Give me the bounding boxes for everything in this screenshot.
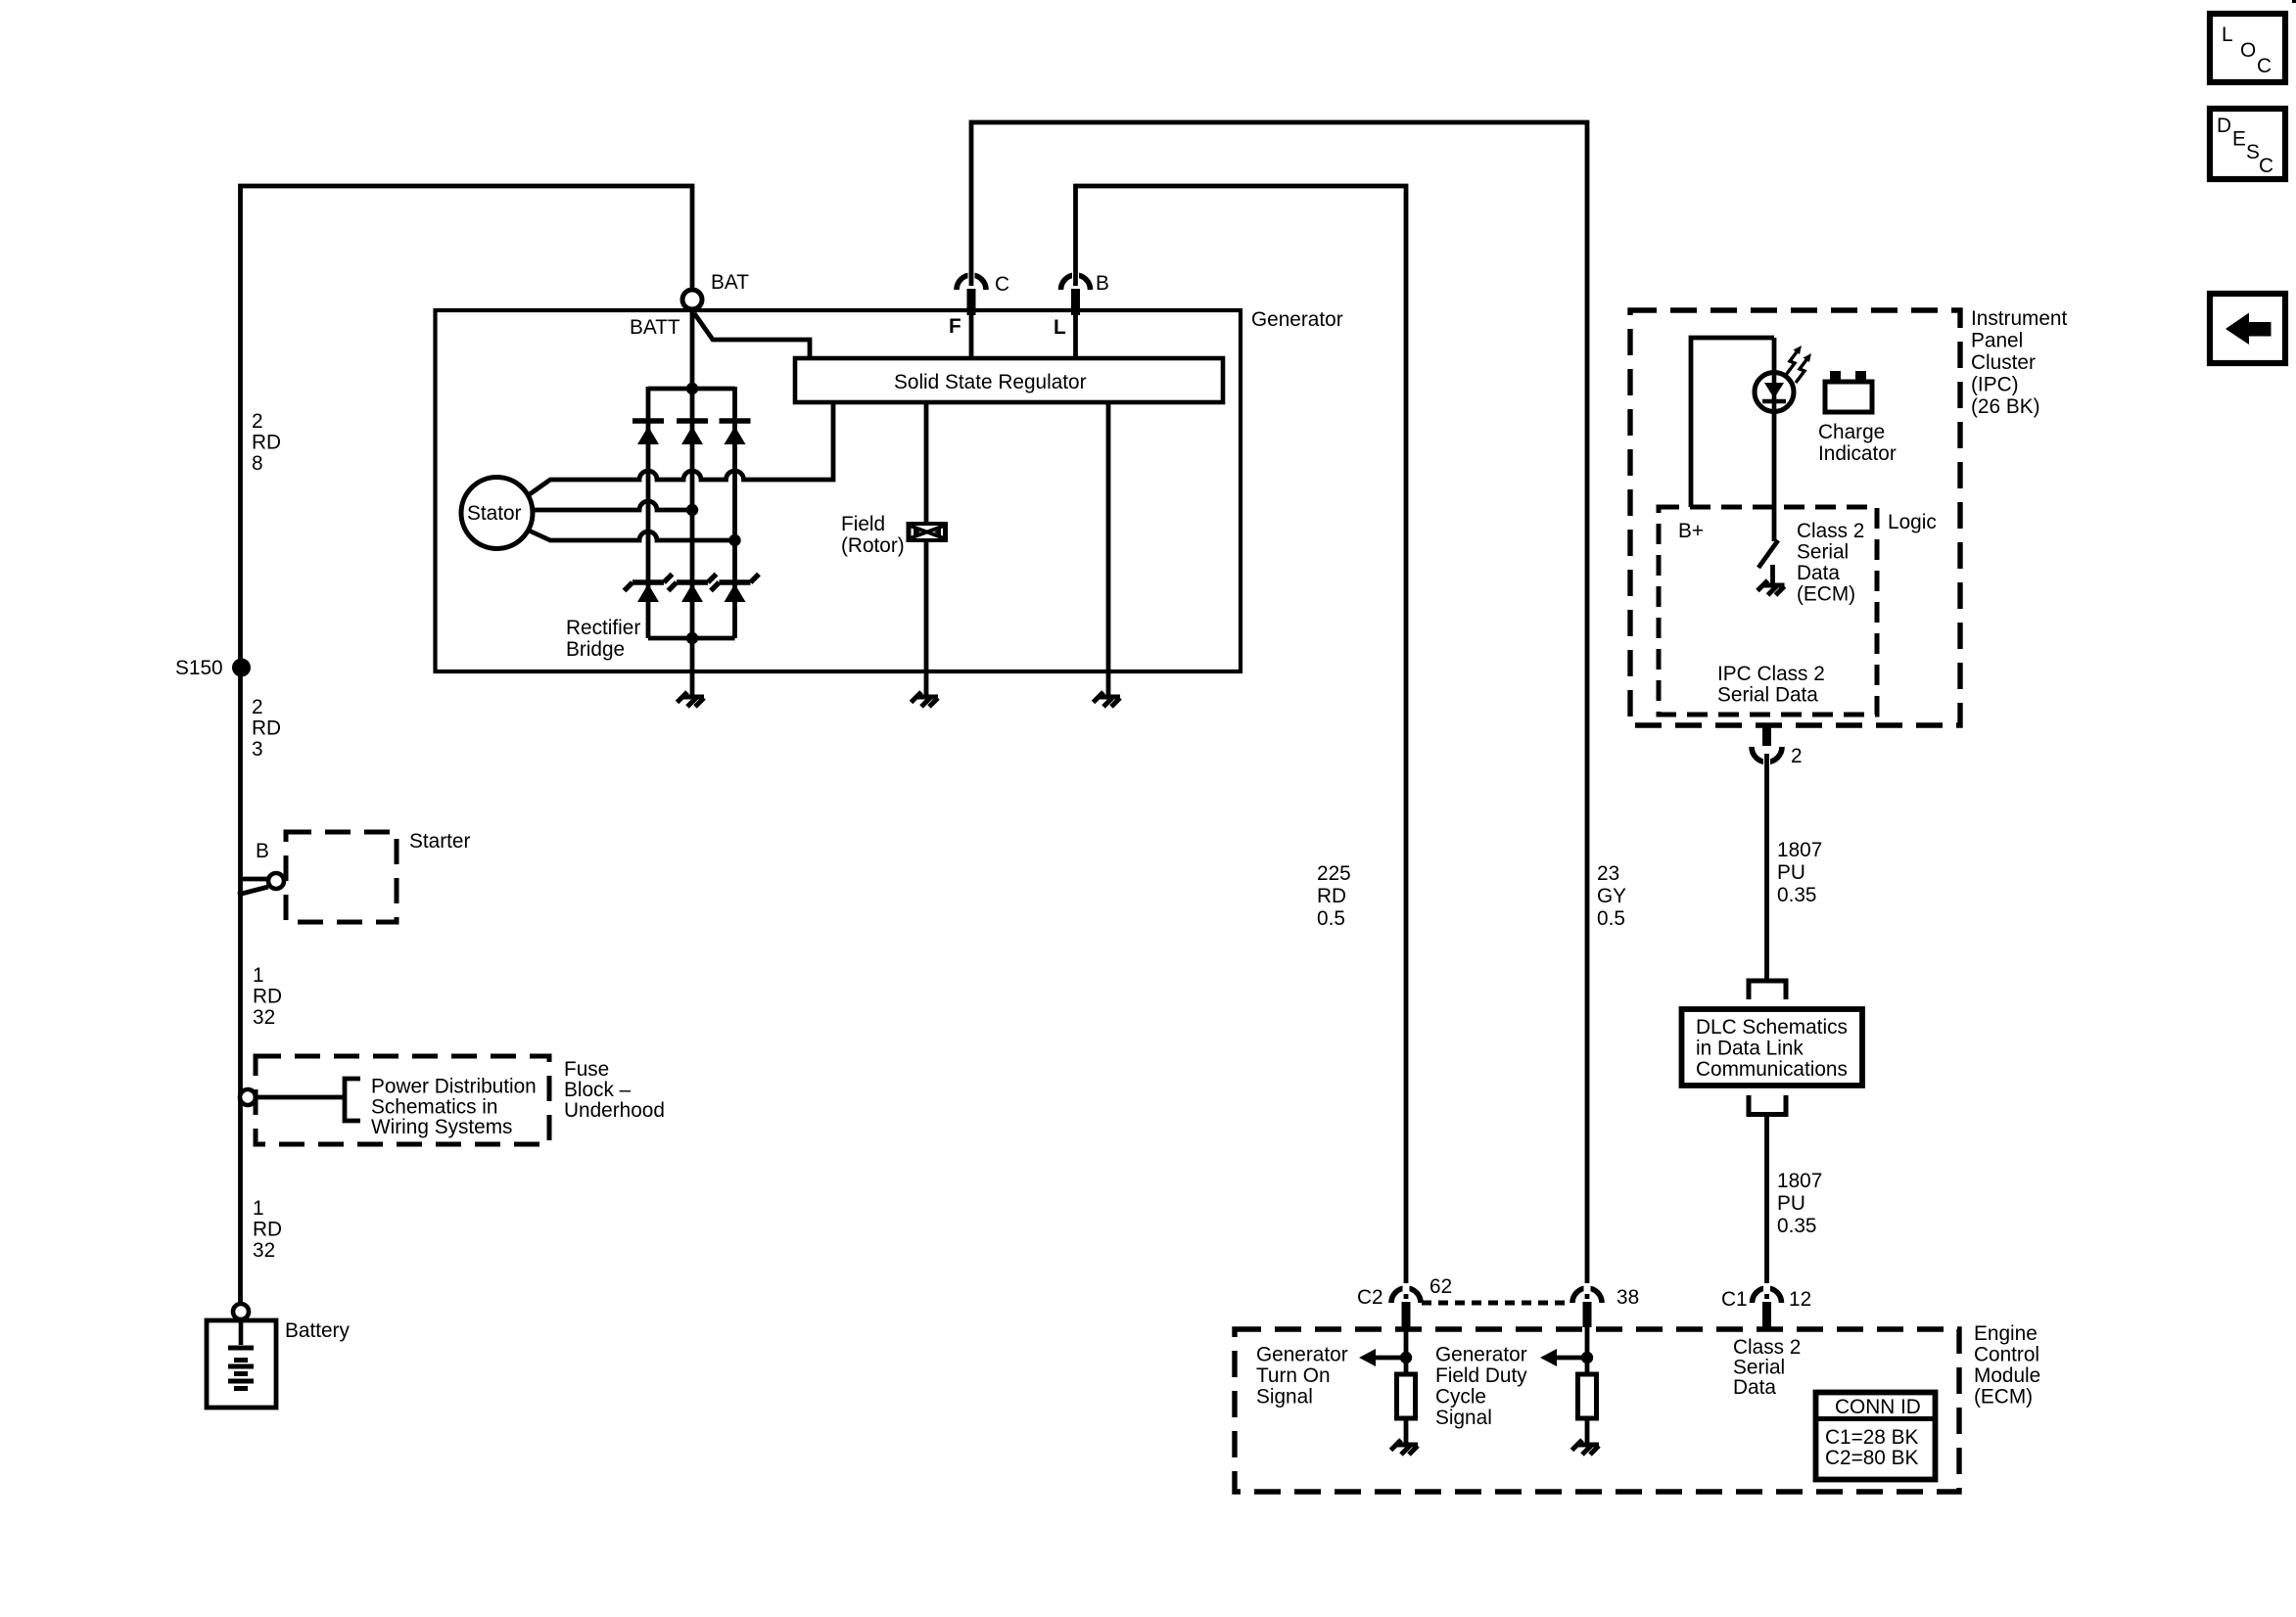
wire resistor to ground 2 xyxy=(1585,1418,1590,1445)
wire BATT diagonal to regulator xyxy=(694,313,810,358)
svg-text:0.5: 0.5 xyxy=(1597,907,1625,930)
svg-text:0.5: 0.5 xyxy=(1317,907,1345,930)
svg-text:in Data Link: in Data Link xyxy=(1696,1038,1804,1060)
wire B+ branch xyxy=(1691,338,1774,507)
svg-text:DLC Schematics: DLC Schematics xyxy=(1696,1016,1848,1039)
ground IPC logic xyxy=(1757,580,1785,595)
wire stator phase 1 to regulator xyxy=(527,402,833,496)
svg-text:1: 1 xyxy=(253,964,264,987)
diode D4 lower left zener xyxy=(625,575,673,591)
pin L xyxy=(1071,289,1080,315)
fuse block terminal circle xyxy=(240,1089,256,1105)
svg-text:L: L xyxy=(1054,316,1066,339)
battery box xyxy=(207,1320,276,1408)
wire L pin to regulator xyxy=(1073,315,1078,358)
svg-text:BAT: BAT xyxy=(711,271,749,294)
wire C to ECM 38 xyxy=(971,122,1587,1299)
svg-text:Generator: Generator xyxy=(1251,308,1343,331)
svg-text:C: C xyxy=(995,273,1009,296)
wire generator turn on signal xyxy=(1404,1327,1409,1374)
diode D3 upper right xyxy=(720,418,751,423)
battery cell symbol xyxy=(239,1322,244,1345)
ECM dashed box Engine Control Module xyxy=(1235,1329,1959,1492)
DLC top bracket xyxy=(1749,981,1786,999)
DESC box xyxy=(2210,109,2285,179)
svg-text:IPC Class 2: IPC Class 2 xyxy=(1717,663,1825,685)
svg-text:12: 12 xyxy=(1789,1288,1811,1311)
svg-text:Field: Field xyxy=(841,513,885,535)
fuse block dashed box xyxy=(256,1056,549,1144)
svg-text:(ECM): (ECM) xyxy=(1797,583,1855,606)
svg-text:Generator: Generator xyxy=(1256,1344,1348,1366)
wire battery feed: left vertical and top horizontal to BAT xyxy=(241,186,693,1304)
wire rectifier right column xyxy=(732,387,737,638)
pin 62 xyxy=(1402,1302,1411,1327)
svg-text:CONN ID: CONN ID xyxy=(1835,1396,1921,1418)
starter switch arm xyxy=(238,887,268,895)
arrow box xyxy=(2210,294,2285,363)
svg-text:Field Duty: Field Duty xyxy=(1435,1364,1527,1387)
arrow turn on signal xyxy=(1374,1356,1406,1361)
wire B to ECM C2 62 xyxy=(1076,186,1407,1299)
wire switch to ground xyxy=(1770,565,1775,585)
connector B arc at generator xyxy=(1061,275,1091,290)
ground field xyxy=(912,692,939,707)
svg-text:Rectifier: Rectifier xyxy=(566,617,640,639)
regulator box Solid State Regulator xyxy=(795,358,1223,402)
svg-text:Data: Data xyxy=(1733,1376,1776,1399)
svg-text:0.35: 0.35 xyxy=(1777,1215,1816,1237)
DLC bottom bracket xyxy=(1749,1095,1786,1115)
svg-text:1807: 1807 xyxy=(1777,839,1822,861)
connector 38 arc xyxy=(1572,1288,1602,1303)
ground ECM 1 xyxy=(1391,1440,1419,1455)
ground ECM 2 xyxy=(1572,1440,1600,1455)
wire BAT vertical into rectifier xyxy=(690,309,695,389)
svg-text:Cycle: Cycle xyxy=(1435,1386,1486,1409)
svg-text:Signal: Signal xyxy=(1435,1407,1492,1429)
wire IPC to DLC bracket xyxy=(1764,754,1769,979)
wire rectifier left column xyxy=(646,387,651,638)
node turn on junction dot xyxy=(1400,1352,1412,1363)
starter dashed box xyxy=(286,832,397,922)
svg-text:RD: RD xyxy=(253,986,282,1008)
diode D5 lower middle zener xyxy=(669,575,717,591)
node field duty junction dot xyxy=(1581,1352,1593,1363)
node S150 junction dot xyxy=(232,659,251,677)
node top bus junction dot xyxy=(686,383,698,394)
resistor turn on xyxy=(1397,1374,1416,1418)
field rotor coil symbol xyxy=(907,522,949,542)
svg-text:2: 2 xyxy=(252,696,263,718)
switch arm in IPC xyxy=(1758,540,1778,568)
svg-text:RD: RD xyxy=(252,432,281,454)
wire starter branch stub xyxy=(241,877,269,882)
connector C1 arc xyxy=(1753,1288,1782,1303)
svg-text:RD: RD xyxy=(253,1219,282,1241)
svg-text:C2=80 BK: C2=80 BK xyxy=(1825,1447,1919,1469)
DLC schematics box xyxy=(1682,1009,1863,1086)
svg-text:BATT: BATT xyxy=(630,316,680,339)
svg-text:(ECM): (ECM) xyxy=(1974,1386,2033,1409)
pin 38 xyxy=(1583,1302,1592,1327)
svg-text:C: C xyxy=(2257,55,2272,77)
svg-text:Communications: Communications xyxy=(1696,1058,1848,1081)
node phase 3 junction dot xyxy=(728,534,740,546)
svg-text:Bridge: Bridge xyxy=(566,638,625,661)
svg-text:Turn On: Turn On xyxy=(1256,1364,1331,1387)
svg-text:Generator: Generator xyxy=(1435,1344,1527,1366)
svg-text:Panel: Panel xyxy=(1971,330,2023,352)
svg-text:S: S xyxy=(2246,141,2260,163)
fuse block bracket xyxy=(345,1079,360,1121)
svg-text:38: 38 xyxy=(1617,1286,1639,1309)
svg-text:Wiring Systems: Wiring Systems xyxy=(371,1116,512,1138)
svg-text:(26 BK): (26 BK) xyxy=(1971,395,2040,418)
svg-text:L: L xyxy=(2222,23,2233,46)
svg-text:Cluster: Cluster xyxy=(1971,351,2036,374)
svg-text:1: 1 xyxy=(253,1197,264,1220)
svg-text:Solid State Regulator: Solid State Regulator xyxy=(894,371,1087,393)
svg-text:B+: B+ xyxy=(1678,520,1704,542)
CONN ID box xyxy=(1816,1393,1936,1480)
diode D6 lower right zener xyxy=(711,575,759,591)
wire field rotor vertical xyxy=(924,402,929,697)
pin 12 xyxy=(1762,1302,1771,1327)
terminal circle BAT xyxy=(682,290,702,309)
svg-text:Engine: Engine xyxy=(1974,1322,2038,1345)
wire DLC to C1 xyxy=(1764,1115,1769,1300)
svg-text:2: 2 xyxy=(252,410,263,433)
logic dashed box xyxy=(1659,507,1877,715)
LED charge indicator circle xyxy=(1755,373,1794,412)
wire rectifier top bus xyxy=(648,387,735,392)
IPC dashed box Instrument Panel Cluster xyxy=(1630,310,1960,725)
svg-text:(Rotor): (Rotor) xyxy=(841,534,905,557)
svg-text:Indicator: Indicator xyxy=(1818,442,1897,465)
svg-text:PU: PU xyxy=(1777,861,1805,884)
svg-text:E: E xyxy=(2232,128,2246,151)
stator circle xyxy=(461,478,533,549)
connector 2 pin at IPC bottom xyxy=(1762,725,1771,746)
svg-text:1807: 1807 xyxy=(1777,1170,1822,1192)
svg-text:8: 8 xyxy=(252,452,263,475)
charge indicator battery icon xyxy=(1825,382,1872,412)
svg-text:Control: Control xyxy=(1974,1344,2039,1366)
svg-text:Instrument: Instrument xyxy=(1971,307,2067,330)
arrow left icon xyxy=(2226,313,2272,346)
LED light arrows xyxy=(1786,349,1808,383)
svg-text:Serial: Serial xyxy=(1797,541,1849,564)
wire fuse block branch xyxy=(256,1095,345,1100)
svg-text:O: O xyxy=(2240,39,2256,62)
svg-text:Module: Module xyxy=(1974,1364,2040,1387)
svg-text:Power Distribution: Power Distribution xyxy=(371,1076,537,1098)
wire F pin to regulator xyxy=(969,315,974,358)
node phase 2 junction dot xyxy=(686,504,698,516)
corner artifact mark xyxy=(2292,0,2296,3)
svg-text:3: 3 xyxy=(252,738,263,761)
svg-text:32: 32 xyxy=(253,1006,275,1029)
wire rectifier middle column xyxy=(690,389,695,638)
svg-text:Serial Data: Serial Data xyxy=(1717,684,1818,707)
starter terminal circle B xyxy=(268,873,284,889)
wire rectifier bottom bus xyxy=(648,636,735,641)
pin F xyxy=(967,289,976,315)
svg-text:C1: C1 xyxy=(1721,1288,1748,1311)
connector 2 cup arc xyxy=(1752,747,1782,762)
connector C arc at generator xyxy=(957,275,986,290)
wire stator phase 2 xyxy=(532,501,692,510)
svg-text:B: B xyxy=(1096,272,1109,295)
svg-text:RD: RD xyxy=(1317,885,1346,907)
svg-text:S150: S150 xyxy=(175,657,223,679)
wire rectifier ground vertical xyxy=(690,638,695,697)
svg-text:Battery: Battery xyxy=(285,1319,350,1342)
svg-text:C1=28 BK: C1=28 BK xyxy=(1825,1426,1919,1449)
diode D2 upper middle xyxy=(677,418,708,423)
wire charge indicator vertical lower xyxy=(1772,411,1777,541)
LOC box xyxy=(2210,14,2285,82)
svg-text:Starter: Starter xyxy=(409,830,470,853)
svg-text:Fuse: Fuse xyxy=(564,1058,609,1081)
wire regulator right ground vertical xyxy=(1106,402,1111,697)
svg-text:2: 2 xyxy=(1791,745,1803,767)
svg-text:Class 2: Class 2 xyxy=(1797,520,1864,542)
diode D1 upper left xyxy=(633,418,664,423)
svg-text:C: C xyxy=(2259,155,2273,177)
arrow field duty signal xyxy=(1555,1356,1587,1361)
node bottom bus junction dot xyxy=(686,632,698,644)
svg-text:GY: GY xyxy=(1597,885,1626,907)
svg-text:(IPC): (IPC) xyxy=(1971,374,2019,396)
wire generator field duty signal xyxy=(1585,1327,1590,1374)
ground regulator xyxy=(1094,692,1121,707)
dashed link C2 to 38 xyxy=(1422,1301,1571,1306)
generator box xyxy=(436,310,1242,671)
wire stator phase 3 xyxy=(527,530,735,540)
svg-text:RD: RD xyxy=(252,717,281,740)
svg-text:225: 225 xyxy=(1317,862,1351,885)
svg-text:D: D xyxy=(2217,115,2231,137)
svg-text:62: 62 xyxy=(1429,1275,1452,1298)
svg-text:PU: PU xyxy=(1777,1192,1805,1215)
svg-text:0.35: 0.35 xyxy=(1777,884,1816,906)
wire charge indicator vertical upper xyxy=(1772,338,1777,373)
svg-text:23: 23 xyxy=(1597,862,1619,885)
battery terminal circle xyxy=(233,1304,249,1319)
LED diode symbol xyxy=(1772,373,1777,411)
svg-text:F: F xyxy=(949,315,961,338)
connector C2 arc xyxy=(1391,1288,1421,1303)
svg-text:Block –: Block – xyxy=(564,1079,632,1101)
svg-text:32: 32 xyxy=(253,1239,275,1262)
svg-text:Logic: Logic xyxy=(1888,511,1937,533)
svg-text:Underhood: Underhood xyxy=(564,1099,665,1122)
ground rectifier xyxy=(678,692,705,707)
svg-text:B: B xyxy=(256,840,269,862)
svg-text:Signal: Signal xyxy=(1256,1386,1313,1409)
svg-text:C2: C2 xyxy=(1357,1286,1383,1309)
svg-text:Charge: Charge xyxy=(1818,421,1885,443)
svg-text:Stator: Stator xyxy=(467,502,522,525)
resistor field duty xyxy=(1578,1374,1597,1418)
svg-text:Data: Data xyxy=(1797,562,1840,584)
wire resistor to ground 1 xyxy=(1404,1418,1409,1445)
